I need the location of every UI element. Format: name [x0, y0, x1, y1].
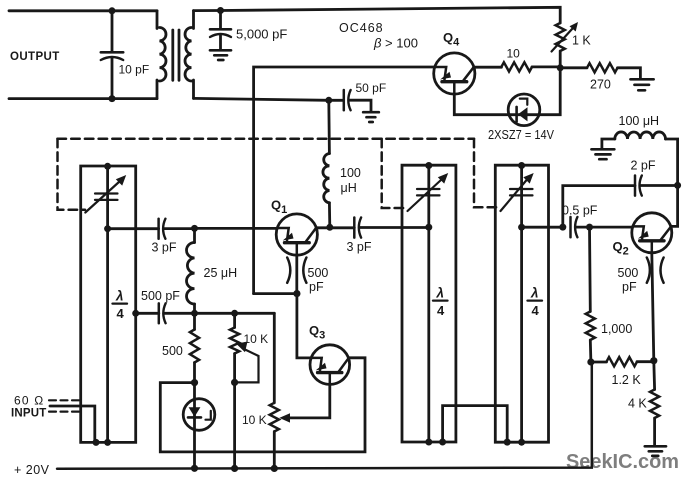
- junction 0.5pF left node: [559, 224, 566, 231]
- wire Q1 collector to 3pF (second): [316, 226, 354, 229]
- input coax dashes: [49, 400, 81, 411]
- label 100 uH (top right): [619, 114, 660, 128]
- capacitor 0.5 pF: [571, 217, 633, 237]
- inductor 100 uH (choke): [323, 100, 330, 227]
- zener diode D2 2XSZ7: [454, 68, 560, 126]
- junction 25uH top: [191, 225, 198, 232]
- label Q4: [443, 30, 460, 49]
- junction 50pF / choke node: [325, 97, 332, 104]
- svg-text:270: 270: [590, 78, 611, 92]
- junction res1 tap: [104, 225, 111, 232]
- ground for 50 pF: [363, 112, 379, 122]
- capacitor 500 pF at Q2 emitter (gimmick): [647, 253, 664, 361]
- svg-text:0.5 pF: 0.5 pF: [562, 204, 598, 218]
- label 60 ohm: [14, 394, 44, 408]
- label 100 uH choke: [340, 166, 361, 195]
- potentiometer 1 K: [552, 22, 579, 68]
- junction +20V 10K branch: [231, 465, 238, 472]
- transistor Q2: [632, 213, 672, 253]
- wire res3 tap to 0.5pF node: [522, 226, 563, 229]
- label 10 pF: [119, 63, 150, 77]
- junction res3 bottom staple: [504, 439, 511, 446]
- wire 10K node down to +20V: [233, 382, 236, 468]
- svg-text:λ: λ: [436, 286, 445, 301]
- svg-text:3 pF: 3 pF: [152, 241, 177, 255]
- watermark SeekIC.com: [566, 451, 679, 473]
- svg-text:60 Ω: 60 Ω: [14, 394, 44, 408]
- svg-text:2 pF: 2 pF: [631, 159, 656, 173]
- label 50 pF: [356, 81, 387, 95]
- svg-text:Q1: Q1: [271, 198, 287, 217]
- label 0.5 pF: [562, 204, 598, 218]
- label +20V: [14, 463, 50, 477]
- label 2 pF: [631, 159, 656, 173]
- resonator box 1 (lambda/4): [81, 166, 136, 442]
- svg-text:β > 100: β > 100: [373, 36, 418, 51]
- label 500: [162, 344, 183, 358]
- junction res1 right edge tap: [132, 310, 139, 317]
- capacitor 2 pF: [635, 176, 678, 196]
- svg-text:Q2: Q2: [613, 239, 629, 258]
- svg-text:4: 4: [532, 303, 540, 318]
- svg-text:OUTPUT: OUTPUT: [10, 51, 60, 63]
- label 500 pF at Q1: [308, 266, 329, 294]
- svg-text:2XSZ7 = 14V: 2XSZ7 = 14V: [488, 128, 555, 142]
- label OC468: [339, 21, 384, 35]
- junction res2 top: [425, 162, 432, 169]
- junction res1 top: [104, 163, 111, 170]
- label 3 pF (second): [347, 240, 372, 254]
- svg-text:100: 100: [340, 166, 361, 180]
- svg-text:λ: λ: [115, 289, 124, 304]
- junction res2 tap: [425, 224, 432, 231]
- svg-text:μH: μH: [341, 181, 357, 195]
- svg-text:4 K: 4 K: [628, 397, 647, 411]
- svg-text:1 K: 1 K: [572, 34, 591, 48]
- label lambda/4 res2: [436, 286, 446, 319]
- junction +20V diode branch: [191, 465, 198, 472]
- wire staple between res2 and res3: [443, 406, 508, 443]
- svg-text:5,000 pF: 5,000 pF: [236, 27, 287, 42]
- svg-text:1.2 K: 1.2 K: [612, 373, 642, 387]
- label 500 pF (left): [141, 289, 180, 303]
- trimmer capacitor res1: [85, 175, 126, 213]
- diode D1 (circled): [183, 383, 215, 469]
- svg-text:500 pF: 500 pF: [141, 289, 180, 303]
- junction res3 bottom inner: [518, 439, 525, 446]
- label 10 K (lower): [242, 413, 267, 427]
- svg-text:10 K: 10 K: [244, 332, 269, 346]
- junction 1K/10/270 node: [557, 64, 564, 71]
- junction 25uH bottom: [191, 310, 198, 317]
- junction bottom of C 10pF: [109, 95, 116, 102]
- svg-text:3 pF: 3 pF: [347, 240, 372, 254]
- label beta > 100: [373, 36, 418, 51]
- svg-text:4: 4: [437, 303, 445, 318]
- junction 1.2K left node: [587, 358, 594, 365]
- label 5,000 pF: [236, 27, 287, 42]
- svg-text:λ: λ: [530, 286, 539, 301]
- junction 5,000pF top: [217, 7, 224, 14]
- svg-text:500: 500: [308, 266, 329, 280]
- capacitor 5,000 pF: [210, 11, 231, 50]
- capacitor 500 pF (left): [159, 303, 274, 323]
- label 2XSZ7 = 14V: [488, 128, 555, 142]
- transistor Q3: [310, 345, 350, 385]
- label lambda/4 res1: [115, 289, 125, 322]
- resistor 10 K (upper): [230, 313, 239, 382]
- resistor 1.2 K: [591, 357, 654, 366]
- label INPUT: [11, 408, 47, 420]
- inductor 100 uH (top right): [602, 132, 678, 185]
- svg-text:Q3: Q3: [309, 323, 325, 342]
- +20V rail: [57, 362, 592, 469]
- junction 1.2K right node: [650, 357, 657, 364]
- transistor Q1: [276, 214, 317, 255]
- wire Q4 collector to 10 ohm: [474, 66, 502, 69]
- junction 10K wiper bottom node: [231, 379, 238, 386]
- label 10: [507, 47, 521, 61]
- label 1,000: [601, 322, 632, 336]
- junction res3 top: [518, 162, 525, 169]
- junction res1 bottom (input tap): [93, 439, 100, 446]
- junction choke bottom on collector line: [326, 224, 333, 231]
- label 3 pF (first): [152, 241, 177, 255]
- inductor 25 uH: [187, 228, 195, 313]
- resistor 4 K: [650, 361, 659, 446]
- potentiometer 10 K (lower): [270, 313, 279, 468]
- junction +20V pot branch: [271, 465, 278, 472]
- svg-text:500: 500: [618, 266, 639, 280]
- wire Q3 collector loop to diode node: [160, 358, 365, 452]
- junction 2pF right node: [674, 182, 681, 189]
- label OUTPUT: [10, 51, 60, 63]
- label 4 K: [628, 397, 647, 411]
- svg-text:pF: pF: [309, 280, 324, 294]
- junction diode top node: [191, 379, 198, 386]
- capacitor 50 pF: [344, 90, 371, 111]
- capacitor 3 pF (second): [354, 218, 429, 238]
- wire 10 ohm to node: [532, 66, 560, 69]
- svg-text:pF: pF: [622, 280, 637, 294]
- label Q2: [613, 239, 629, 258]
- wire 2pF branch up: [563, 186, 635, 228]
- wire output bottom rail: [9, 97, 157, 100]
- svg-text:INPUT: INPUT: [11, 408, 47, 420]
- svg-text:4: 4: [117, 306, 125, 321]
- junction 10K top: [231, 310, 238, 317]
- wire emitter node left to Q4 line: [254, 292, 297, 295]
- svg-text:50 pF: 50 pF: [356, 81, 387, 95]
- label 1.2 K: [612, 373, 642, 387]
- junction res2 bottom inner: [425, 439, 432, 446]
- svg-text:OC468: OC468: [339, 21, 384, 35]
- svg-text:10 pF: 10 pF: [119, 63, 150, 77]
- label 10 K (upper): [244, 332, 269, 346]
- label 1 K: [572, 34, 591, 48]
- svg-text:100 μH: 100 μH: [619, 114, 660, 128]
- junction res1 bottom (inner): [104, 439, 111, 446]
- wire output top rail: [9, 9, 157, 12]
- label 270: [590, 78, 611, 92]
- trimmer capacitor res3: [501, 173, 534, 211]
- svg-text:10 K: 10 K: [242, 413, 267, 427]
- wire bottom rail right (to 50pF node): [194, 98, 344, 100]
- wire Q1 emitter to Q4 base line: [254, 67, 435, 294]
- dashed gang line (tuning): [58, 139, 497, 210]
- svg-text:500: 500: [162, 344, 183, 358]
- wire 500pF tap line (res1 edge to Q3 pot): [136, 312, 159, 315]
- label 25 uH: [204, 266, 238, 280]
- resistor 10: [501, 62, 532, 71]
- label Q1: [271, 198, 287, 217]
- capacitor 3 pF (first): [159, 219, 195, 239]
- junction Q1 emitter node: [293, 290, 300, 297]
- label lambda/4 res3: [530, 286, 540, 319]
- transistor Q4: [434, 53, 475, 94]
- resonator box 2 (lambda/4): [402, 165, 456, 442]
- wire Q2 collector up: [671, 185, 678, 226]
- svg-text:25 μH: 25 μH: [204, 266, 238, 280]
- capacitor 500 pF at Q1 emitter (gimmick): [287, 255, 306, 294]
- trimmer capacitor res2: [408, 173, 449, 211]
- capacitor 10 pF: [101, 11, 123, 99]
- svg-text:Q4: Q4: [443, 30, 460, 49]
- resistor 1,000: [586, 227, 595, 362]
- junction res2 bottom staple: [439, 439, 446, 446]
- junction 0.5pF right node: [586, 224, 593, 231]
- label 500 pF at Q2: [618, 266, 639, 294]
- ground for 100 uH: [592, 149, 615, 159]
- label Q3: [309, 323, 325, 342]
- transformer T1: [157, 11, 194, 99]
- junction res3 tap: [518, 224, 525, 231]
- resonator box 3 (lambda/4): [495, 165, 548, 442]
- wire input center conductor: [50, 406, 95, 442]
- ground for 5,000 pF: [210, 50, 231, 60]
- resistor 270: [560, 63, 640, 78]
- wire 25uH node to Q1 base: [195, 227, 278, 230]
- ground for 270: [631, 79, 654, 90]
- svg-text:1,000: 1,000: [601, 322, 632, 336]
- svg-text:10: 10: [507, 47, 521, 61]
- ground for 4 K: [645, 446, 666, 456]
- svg-text:SeekIC.com: SeekIC.com: [566, 451, 679, 473]
- wire Q3 emitter to pot wiper: [279, 384, 330, 422]
- wire emitter node down to Q3 base: [297, 294, 310, 358]
- wire res1 tap to 3pF: [108, 227, 159, 230]
- resistor 500: [190, 313, 199, 382]
- wiper of 10 K upper: [236, 342, 258, 383]
- junction top of C 10pF: [109, 7, 116, 14]
- svg-text:+ 20V: + 20V: [14, 463, 50, 477]
- wire top rail to 1K pot: [194, 7, 561, 23]
